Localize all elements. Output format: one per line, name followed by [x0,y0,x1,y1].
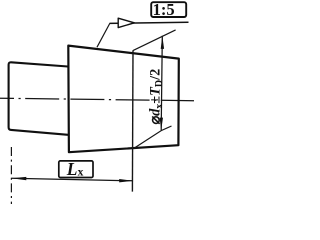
L_x right arrowhead [119,179,133,182]
cone outline [68,46,179,153]
svg-text:L: L [66,159,78,179]
section line (extension line at section x) [131,50,134,191]
svg-text:x: x [78,167,84,179]
L_x dimension line [12,178,133,181]
leader shelf (horizontal) [110,22,189,23]
leader diagonal to cone surface [97,23,110,47]
d_x top arrowhead [161,36,164,49]
L_x label box [59,161,93,178]
taper symbol triangle [118,18,134,27]
datum axis dash-dot (left end of L_x) [10,147,12,204]
oblique extension line top [133,30,175,51]
1:5 scale box [151,2,186,17]
d_x dimension line [161,36,162,130]
svg-text:⌀dx±TD/2: ⌀dx±TD/2 [148,69,166,125]
centerline (horizontal axis) [0,98,194,101]
L_x left arrowhead [12,177,27,180]
oblique extension line bottom [134,126,172,148]
shaft (cylinder) outline [9,62,68,135]
svg-text:1:5: 1:5 [153,0,175,19]
d_x bottom arrowhead [160,118,163,131]
